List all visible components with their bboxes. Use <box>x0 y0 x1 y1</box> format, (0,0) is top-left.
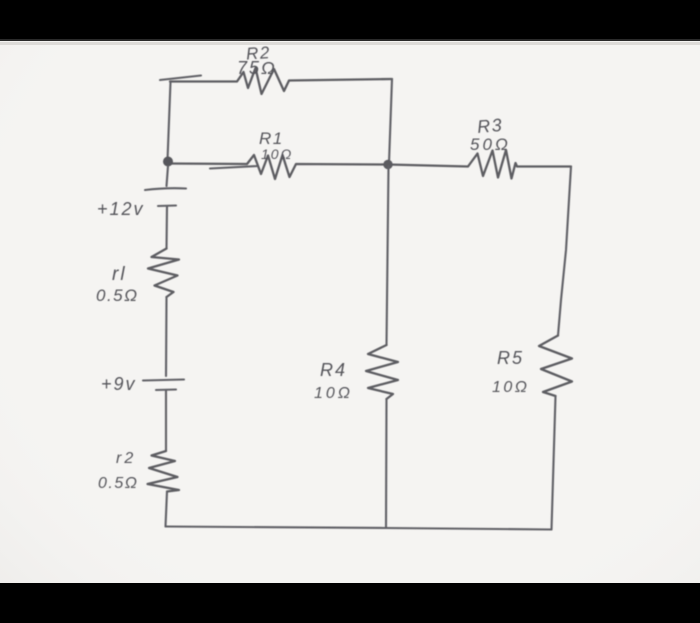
svg-text:10Ω: 10Ω <box>492 379 529 396</box>
svg-text:75Ω: 75Ω <box>237 58 277 78</box>
svg-text:50Ω: 50Ω <box>470 135 511 154</box>
svg-text:R3: R3 <box>476 115 504 137</box>
svg-text:R4: R4 <box>320 360 347 380</box>
svg-text:0.5Ω: 0.5Ω <box>96 286 139 305</box>
svg-text:R5: R5 <box>497 348 524 368</box>
svg-text:+9v: +9v <box>101 374 137 394</box>
svg-text:0.5Ω: 0.5Ω <box>98 475 138 492</box>
svg-text:+12v: +12v <box>97 199 145 219</box>
svg-text:10Ω: 10Ω <box>314 385 353 402</box>
svg-text:rl: rl <box>112 264 127 285</box>
svg-text:r2: r2 <box>116 450 136 467</box>
svg-text:10Ω: 10Ω <box>261 146 293 162</box>
